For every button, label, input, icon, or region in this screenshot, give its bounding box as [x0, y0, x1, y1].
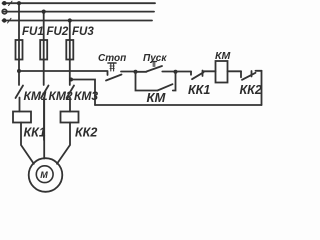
node: junction after stop [134, 70, 138, 74]
svg-text:КК1: КК1 [188, 83, 210, 97]
wire: coil to KK2 contact [228, 70, 242, 72]
svg-text:КК2: КК2 [75, 126, 97, 140]
stop button SB1 [106, 63, 136, 81]
node: control return tap on phase C [69, 78, 73, 82]
wire: bottom control rail [95, 104, 262, 106]
wire: to KK1 contact [176, 71, 192, 73]
wire: right return drop [261, 71, 263, 105]
motor M1 [29, 158, 63, 192]
svg-text:КМ3: КМ3 [74, 89, 98, 103]
svg-text:М: М [40, 170, 48, 180]
wire: control return to bottom rail [71, 80, 95, 106]
start button SB2 [136, 62, 176, 72]
phase line L3 [2, 18, 152, 23]
contactor contact KM2 [41, 86, 73, 104]
fuse FU3 [66, 26, 94, 60]
fuse FU2 [40, 26, 69, 60]
wire: motor lead 1 [21, 123, 34, 164]
wire: phase A fuse to contact [18, 60, 20, 86]
node: control tap on phase A [17, 69, 21, 73]
wire: motor lead 3 [57, 123, 70, 164]
wire: phase A contact to heater [19, 98, 21, 112]
svg-text:FU3: FU3 [72, 26, 94, 38]
svg-text:КМ: КМ [215, 50, 230, 62]
svg-text:КК1: КК1 [24, 126, 46, 140]
svg-text:FU1: FU1 [22, 26, 44, 38]
phase line L2 [2, 9, 154, 14]
svg-text:КК2: КК2 [240, 83, 262, 97]
wire: phase C contact to heater [69, 98, 71, 112]
wire: phase B fuse to contact [43, 60, 45, 86]
wire: phase C fuse to contact [69, 60, 71, 86]
thermal contact KK2 [240, 71, 262, 97]
wire: phase B contact down [43, 98, 45, 141]
wire: control feed (to Stop button) [19, 70, 108, 72]
contactor contact KM3 [67, 86, 99, 104]
thermal heater KK1 [13, 112, 46, 140]
wire: phase C drop [69, 21, 71, 41]
thermal heater KK2 [61, 112, 98, 140]
wire: phase A drop [18, 3, 20, 40]
phase line L1 [2, 1, 155, 6]
node: junction L1 / phase A [17, 1, 21, 5]
node: junction L2 / phase B [42, 10, 46, 14]
contactor coil KM [215, 50, 230, 83]
node: junction L3 / phase C [68, 18, 72, 22]
thermal contact KK1 [188, 71, 216, 98]
svg-text:FU2: FU2 [47, 26, 69, 38]
fuse FU1 [16, 26, 44, 60]
wire: motor lead 2 [43, 98, 45, 159]
node: junction after start [174, 70, 178, 74]
wire: phase B drop [43, 12, 45, 40]
latch contact KM [136, 72, 176, 105]
contactor contact KM1 [16, 86, 48, 104]
svg-text:КМ: КМ [147, 90, 167, 105]
